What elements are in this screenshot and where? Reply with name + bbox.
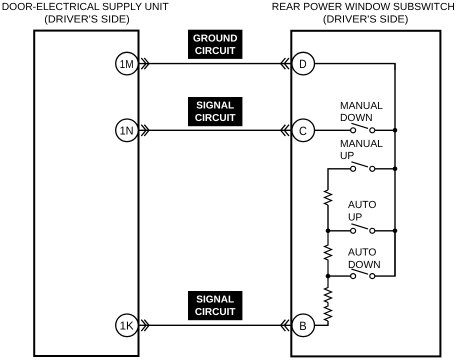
resistor R1 xyxy=(325,190,332,205)
wire R4 to B xyxy=(315,321,329,325)
svg-text:C: C xyxy=(299,124,307,138)
wire C to manual down switch xyxy=(315,129,351,131)
resistor R2 xyxy=(325,231,332,276)
connector pin 1K xyxy=(116,314,149,337)
svg-text:B: B xyxy=(299,319,306,333)
svg-text:DOOR-ELECTRICAL SUPPLY UNIT: DOOR-ELECTRICAL SUPPLY UNIT xyxy=(2,2,170,13)
svg-text:D: D xyxy=(299,57,307,71)
svg-text:CIRCUIT: CIRCUIT xyxy=(195,113,236,124)
svg-text:GROUND: GROUND xyxy=(193,33,237,44)
wire manual up switch to left resistor chain xyxy=(328,169,351,190)
title REAR POWER WINDOW SUBSWITCH xyxy=(272,2,455,26)
resistor R3 xyxy=(325,276,332,302)
junction dot auto up right xyxy=(393,229,398,234)
svg-text:MANUAL: MANUAL xyxy=(340,139,383,150)
svg-text:DOWN: DOWN xyxy=(340,113,373,124)
switch MANUAL DOWN xyxy=(351,123,395,133)
svg-text:AUTO: AUTO xyxy=(348,247,376,258)
svg-text:CIRCUIT: CIRCUIT xyxy=(195,46,236,57)
svg-text:1N: 1N xyxy=(120,126,134,138)
svg-text:UP: UP xyxy=(340,151,354,162)
svg-text:1K: 1K xyxy=(120,321,134,333)
connector pin 1M xyxy=(116,52,149,75)
svg-text:MANUAL: MANUAL xyxy=(340,101,383,112)
wire 1M to D (ground circuit) xyxy=(139,63,292,65)
svg-text:AUTO: AUTO xyxy=(348,200,376,211)
connector pin C xyxy=(281,119,315,142)
junction dot auto up left xyxy=(326,229,331,234)
svg-text:(DRIVER'S SIDE): (DRIVER'S SIDE) xyxy=(44,15,130,26)
junction dot manual up xyxy=(393,167,398,172)
connector pin B xyxy=(281,314,315,337)
svg-text:UP: UP xyxy=(348,213,362,224)
svg-text:(DRIVER'S SIDE): (DRIVER'S SIDE) xyxy=(323,15,409,26)
label MANUAL UP xyxy=(340,139,383,162)
label SIGNAL CIRCUIT (upper) xyxy=(188,97,242,126)
label GROUND CIRCUIT xyxy=(188,30,242,59)
switch MANUAL UP xyxy=(351,162,395,172)
svg-text:CIRCUIT: CIRCUIT xyxy=(195,307,236,318)
svg-text:REAR POWER WINDOW SUBSWITCH: REAR POWER WINDOW SUBSWITCH xyxy=(272,2,455,13)
wire right vertical bus xyxy=(394,64,396,277)
label AUTO DOWN xyxy=(348,247,381,270)
switch AUTO DOWN xyxy=(328,231,395,279)
right unit box REAR POWER WINDOW SUBSWITCH xyxy=(291,31,440,357)
svg-text:1M: 1M xyxy=(120,59,134,71)
wire 1N to C (signal circuit) xyxy=(139,129,292,131)
label SIGNAL CIRCUIT (lower) xyxy=(188,291,242,320)
svg-text:SIGNAL: SIGNAL xyxy=(196,295,234,306)
left unit box DOOR-ELECTRICAL SUPPLY UNIT xyxy=(34,31,138,356)
label MANUAL DOWN xyxy=(340,101,383,124)
title DOOR-ELECTRICAL SUPPLY UNIT xyxy=(2,2,170,26)
switch AUTO UP xyxy=(328,224,395,234)
wire 1K to B (signal circuit) xyxy=(139,324,292,326)
connector pin 1N xyxy=(116,119,149,142)
wire D to right bus xyxy=(315,64,396,70)
junction dot auto down left xyxy=(326,274,331,279)
wire R1 to auto up node xyxy=(327,205,329,231)
connector pin D xyxy=(281,52,315,75)
svg-text:SIGNAL: SIGNAL xyxy=(196,101,234,112)
junction dot manual down xyxy=(393,128,398,133)
resistor R4 xyxy=(325,303,332,322)
label AUTO UP xyxy=(348,200,376,224)
